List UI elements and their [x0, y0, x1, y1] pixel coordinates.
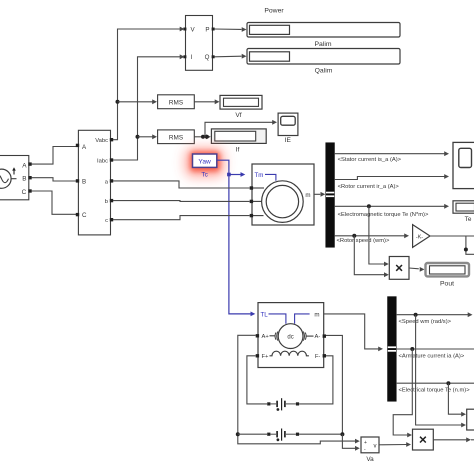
label armature current	[399, 354, 465, 360]
svg-text:+: +	[364, 440, 367, 446]
wire RMS2 to If display	[194, 134, 211, 139]
RMS block 1	[158, 95, 195, 109]
label electrical torque	[399, 387, 471, 393]
svg-text:v: v	[374, 443, 377, 449]
junction Vabc-RMS1	[116, 100, 120, 104]
svg-text:Power: Power	[264, 7, 284, 14]
svg-text:c: c	[105, 218, 108, 224]
svg-text:B: B	[22, 175, 26, 182]
wire Va to product 2	[379, 442, 411, 447]
svg-text:<Stator current is_a (A)>: <Stator current is_a (A)>	[338, 157, 402, 163]
wire stator current to scope	[334, 151, 449, 156]
junction RMS2 output	[201, 135, 209, 139]
wire b to machine B	[113, 200, 250, 203]
svg-text:<Rotor speed (wm)>: <Rotor speed (wm)>	[337, 238, 390, 244]
junction Yaw wire	[227, 173, 231, 177]
junction Iabc-RMS2	[136, 135, 140, 139]
asynchronous machine block	[250, 164, 314, 225]
svg-text:<Electromagnetic torque Te (N*: <Electromagnetic torque Te (N*m)>	[338, 212, 429, 218]
junction A+ battery	[236, 432, 240, 436]
wire product 2 output	[433, 437, 474, 442]
RMS block 2	[158, 130, 195, 144]
wire battery2 left	[238, 433, 267, 435]
label stator current	[338, 157, 402, 163]
label Va	[366, 456, 374, 463]
wire torque branch to corner block	[448, 383, 466, 416]
wire battery2 junction to Va minus	[342, 434, 359, 451]
dc voltage source battery 1	[267, 398, 299, 411]
three-phase source block	[0, 156, 32, 200]
gain -K-	[413, 225, 430, 248]
wire gain output	[430, 235, 474, 237]
display Power bar	[247, 23, 400, 38]
wire Vabc to V input	[113, 27, 185, 140]
display If	[211, 129, 266, 144]
junction battery2 right	[340, 432, 344, 436]
svg-text:Yaw: Yaw	[198, 158, 211, 165]
svg-text:C: C	[22, 189, 27, 196]
wire F+ to battery 1	[247, 356, 267, 404]
svg-text:Va: Va	[366, 456, 374, 463]
label Vf	[235, 112, 241, 119]
wire armature branch to product 2	[393, 349, 412, 437]
svg-text:Tm: Tm	[255, 172, 264, 179]
wire A+ to Va plus	[238, 335, 360, 444]
junction speed wm	[414, 313, 418, 317]
label Power	[264, 7, 284, 14]
wire product to Pout	[409, 267, 425, 272]
wire dc m to bus selector 2	[324, 314, 383, 351]
wire armature current	[396, 348, 474, 350]
wire battery2 to A-	[299, 335, 342, 434]
label rotor speed	[337, 238, 390, 244]
svg-text:A: A	[22, 162, 27, 169]
label Palim	[315, 41, 332, 48]
wire speed to product	[354, 236, 389, 277]
svg-text:b: b	[105, 199, 108, 205]
svg-text:<Speed wm (rad/s)>: <Speed wm (rad/s)>	[399, 319, 452, 325]
wire Yaw to Tm and TL (blue)	[217, 160, 256, 316]
wire gain branch down	[466, 236, 474, 254]
label rotor current	[338, 184, 400, 190]
wire electromagnetic torque to display	[334, 204, 449, 209]
wire rotor current to scope	[334, 174, 449, 179]
svg-text:-K-: -K-	[416, 234, 423, 240]
junction gain branch	[464, 248, 468, 252]
svg-text:<Rotor current ir_a (A)>: <Rotor current ir_a (A)>	[338, 184, 400, 190]
constant block Yaw	[193, 154, 217, 167]
wire a to machine A	[113, 181, 250, 188]
svg-text:m: m	[305, 192, 310, 199]
svg-text:F-: F-	[315, 354, 321, 360]
svg-text:IE: IE	[285, 137, 292, 144]
product block 1	[389, 257, 409, 280]
label Te	[465, 216, 472, 223]
svg-text:Qalim: Qalim	[315, 68, 333, 75]
svg-text:A+: A+	[262, 334, 270, 340]
label electromagnetic torque	[338, 212, 429, 218]
svg-text:I: I	[191, 54, 193, 61]
label Tc	[201, 171, 208, 178]
svg-text:Vf: Vf	[235, 112, 241, 119]
label IE	[285, 137, 292, 144]
svg-text:m: m	[314, 311, 319, 318]
label Qalim	[315, 68, 333, 75]
svg-text:Iabc: Iabc	[97, 158, 108, 164]
voltage measurement block Va	[361, 437, 379, 453]
dc voltage source battery 2	[267, 429, 299, 442]
svg-text:Tc: Tc	[201, 171, 208, 178]
wire torque to product	[369, 206, 389, 266]
junction armature current	[410, 347, 414, 351]
junction rotor speed	[352, 234, 356, 238]
svg-text:Q: Q	[205, 54, 210, 61]
display Vf	[220, 95, 262, 109]
svg-text:A-: A-	[315, 334, 321, 340]
junction torque	[367, 204, 371, 208]
wire c to machine C	[113, 216, 250, 220]
bus selector bar 2	[388, 297, 396, 401]
wire P to Power display	[215, 27, 247, 32]
wire Iabc branch to RMS2	[138, 134, 158, 139]
wire rotor speed to gain	[334, 233, 409, 238]
wire machine m to bus selector	[314, 192, 325, 197]
svg-text:P: P	[205, 26, 209, 33]
svg-text:RMS: RMS	[169, 99, 183, 106]
scope IE	[278, 113, 298, 135]
wire Q to Palim display	[215, 54, 247, 59]
glow highlight around Yaw	[184, 147, 225, 178]
svg-text:dc: dc	[287, 335, 293, 341]
wire RMS2 branch to IE scope	[205, 120, 277, 137]
svg-text:TL: TL	[261, 311, 269, 318]
svg-text:C: C	[82, 212, 87, 219]
wire source C to measurement C	[32, 191, 77, 214]
svg-text:<Armature current ia (A)>: <Armature current ia (A)>	[399, 354, 465, 360]
scope machine currents	[453, 142, 474, 188]
svg-text:Te: Te	[465, 216, 472, 223]
label speed wm	[399, 319, 452, 325]
svg-text:Vabc: Vabc	[95, 138, 108, 144]
bus selector bar 1	[326, 143, 334, 247]
display Te	[453, 201, 474, 213]
svg-text:<Electrical torque Te (n.m)>: <Electrical torque Te (n.m)>	[399, 387, 471, 393]
wire battery1 to F-	[299, 356, 333, 404]
corner block	[467, 409, 474, 430]
wire speed wm	[396, 312, 473, 317]
wire source A to measurement A	[32, 147, 77, 165]
wire Iabc to I input	[113, 54, 185, 160]
display Pout	[426, 263, 470, 276]
wire speed branch to corner block	[416, 315, 466, 428]
label If	[236, 146, 240, 153]
svg-text:Pout: Pout	[440, 281, 454, 288]
wire RMS1 to Vf display	[194, 99, 219, 104]
power measurement block P/Q	[183, 16, 214, 71]
svg-text:F+: F+	[262, 354, 270, 360]
dc machine block	[256, 303, 326, 368]
product block 2	[413, 429, 434, 450]
label Pout	[440, 281, 454, 288]
wire source B to measurement B	[32, 178, 77, 181]
wire electrical torque	[396, 382, 474, 384]
svg-text:If: If	[236, 146, 240, 153]
svg-text:B: B	[82, 178, 86, 185]
svg-text:RMS: RMS	[169, 134, 183, 141]
three-phase V-I measurement block	[76, 130, 113, 235]
display Palim bar	[247, 49, 400, 65]
wire Vabc branch to RMS1	[118, 99, 158, 104]
junction electrical torque	[446, 381, 450, 385]
svg-text:Palim: Palim	[315, 41, 332, 48]
